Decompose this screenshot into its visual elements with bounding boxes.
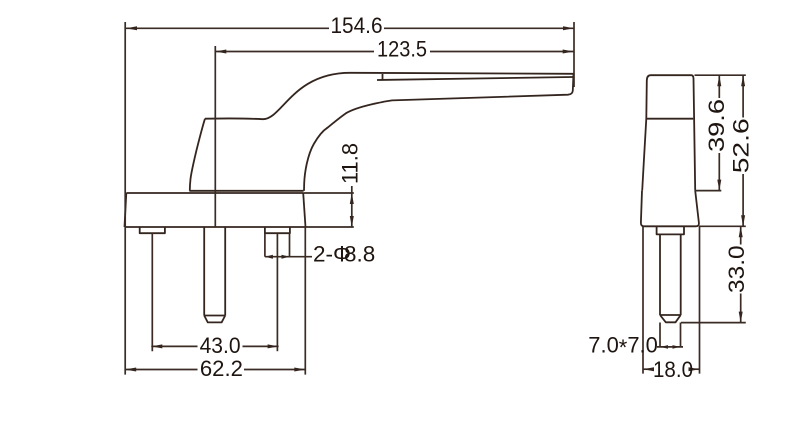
svg-text:7.0*7.0: 7.0*7.0 [588,333,658,361]
svg-text:52.6: 52.6 [729,118,754,173]
svg-text:43.0: 43.0 [200,333,241,358]
svg-text:39.6: 39.6 [704,99,729,152]
svg-text:62.2: 62.2 [200,356,243,381]
svg-text:123.5: 123.5 [377,37,427,62]
svg-text:18.0: 18.0 [653,357,693,382]
svg-text:33.0: 33.0 [724,245,749,293]
svg-text:154.6: 154.6 [331,13,383,38]
svg-text:2-Φ8.8: 2-Φ8.8 [313,242,375,267]
svg-text:11.8: 11.8 [337,143,362,184]
